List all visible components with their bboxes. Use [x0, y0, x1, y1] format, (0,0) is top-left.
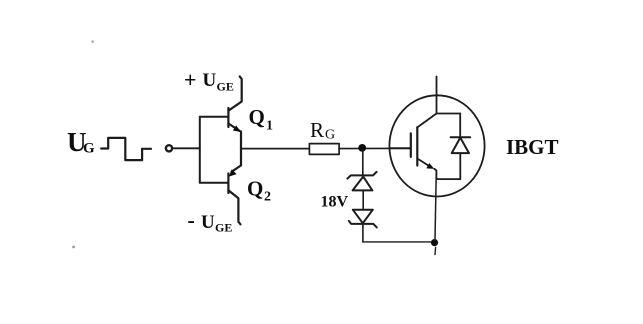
wire: emitters to resistor	[241, 148, 309, 150]
IGBT body circle	[389, 95, 484, 196]
svg-text:GE: GE	[217, 80, 234, 94]
node: gate junction dot	[358, 144, 366, 152]
svg-text:18V: 18V	[321, 194, 349, 211]
wire: bus to Q1 base	[200, 116, 228, 118]
label -UGE	[188, 208, 233, 235]
label +UGE	[184, 67, 234, 94]
transistor Q2 (PNP)	[228, 149, 241, 225]
svg-text:U: U	[203, 70, 217, 91]
svg-text:IBGT: IBGT	[506, 135, 559, 159]
IGBT internal structure	[390, 114, 461, 180]
wire: IGBT emitter lead down to node	[435, 170, 436, 240]
stub below emitter node	[434, 248, 437, 255]
svg-text:R: R	[310, 118, 324, 142]
label RG	[310, 118, 335, 143]
speck bottom-left	[72, 246, 75, 249]
svg-text:G: G	[83, 141, 95, 157]
transistor Q1 (NPN)	[228, 76, 241, 148]
label 18V	[321, 194, 349, 211]
node: emitter junction dot	[431, 239, 438, 246]
input pulse waveform	[101, 138, 151, 160]
svg-text:+: +	[184, 67, 197, 92]
svg-text:-: -	[188, 208, 195, 233]
wire: resistor to gate node	[339, 147, 410, 149]
label Q1	[249, 105, 274, 134]
base bus vertical	[199, 117, 201, 183]
resistor R_G	[309, 144, 339, 155]
wire: node down to zeners	[362, 150, 364, 175]
svg-text:G: G	[325, 128, 335, 143]
speck top-left	[91, 40, 94, 43]
IGBT collector lead	[436, 77, 438, 114]
IGBT freewheel diode	[451, 114, 471, 180]
svg-text:GE: GE	[215, 221, 232, 235]
zener diode D2 (18V)	[349, 210, 377, 242]
label IBGT	[506, 135, 559, 159]
label Q2	[247, 177, 271, 205]
wire: zeners to emitter node	[363, 241, 432, 243]
input terminal circle	[166, 145, 172, 151]
wire: terminal to base bus	[174, 147, 200, 149]
svg-text:Q: Q	[249, 105, 265, 129]
wire: bus to Q2 base	[200, 182, 228, 184]
label U_G	[67, 127, 95, 157]
svg-text:2: 2	[264, 190, 271, 205]
zener diode D1 (18V)	[347, 172, 376, 210]
svg-text:U: U	[201, 212, 215, 233]
svg-text:Q: Q	[247, 177, 263, 201]
svg-text:1: 1	[266, 119, 273, 134]
